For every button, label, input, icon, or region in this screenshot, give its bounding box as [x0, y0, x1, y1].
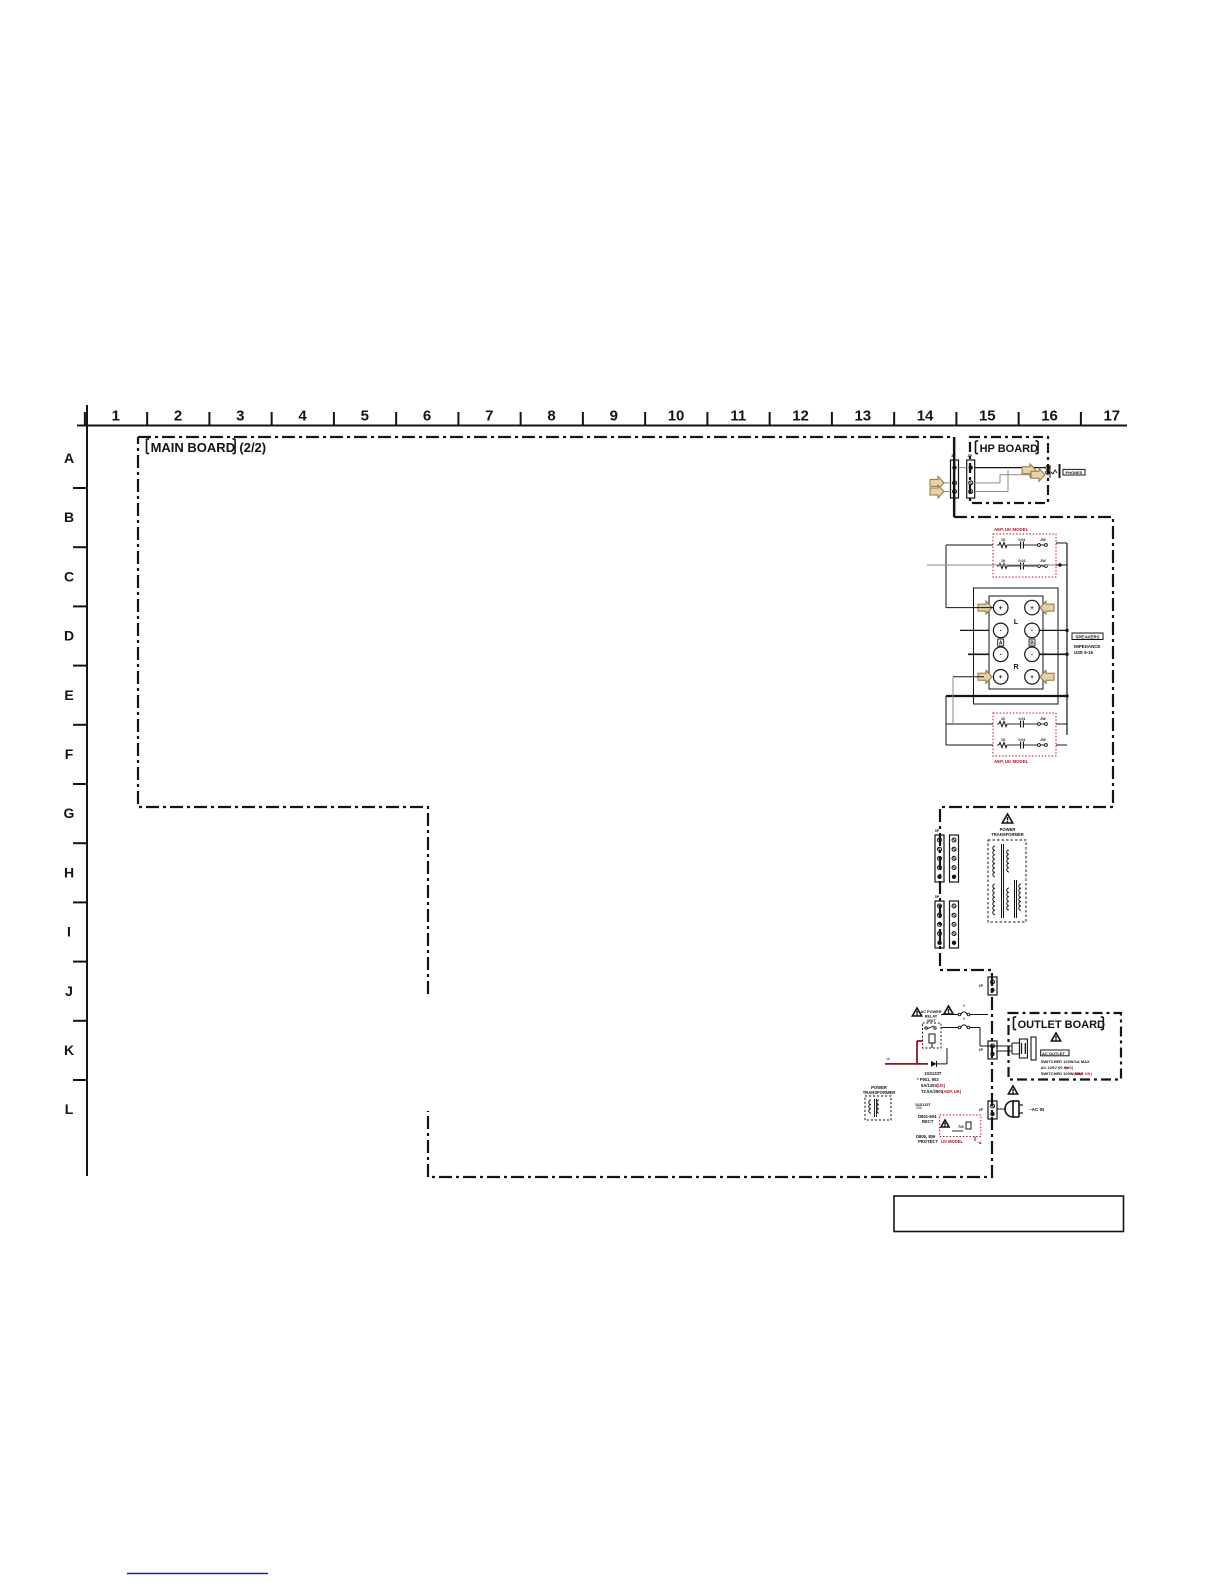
svg-text:AEP, UK MODEL: AEP, UK MODEL [994, 527, 1029, 532]
svg-text:0.01: 0.01 [1019, 738, 1026, 742]
svg-text:+: + [999, 605, 1003, 612]
svg-text:5P: 5P [935, 829, 940, 833]
svg-text:US MODEL: US MODEL [941, 1139, 964, 1144]
svg-text:6: 6 [423, 408, 431, 425]
svg-text:3P: 3P [951, 454, 956, 458]
svg-text:7/8: 7/8 [958, 1124, 964, 1129]
svg-text:G: G [64, 805, 75, 821]
svg-text:+: + [1030, 674, 1034, 681]
svg-text:AC OUTLET: AC OUTLET [1042, 1051, 1065, 1056]
svg-text:F: F [65, 746, 74, 762]
svg-text:SPEAKERS: SPEAKERS [1075, 634, 1099, 639]
svg-text:8: 8 [547, 408, 555, 425]
svg-text:0.01: 0.01 [1019, 559, 1026, 563]
svg-text:10: 10 [1001, 559, 1005, 563]
svg-text:JW: JW [1040, 538, 1046, 542]
svg-text:R: R [1013, 664, 1018, 671]
svg-text:TRANSFORMER: TRANSFORMER [991, 832, 1024, 837]
svg-text:(US): (US) [937, 1083, 946, 1088]
svg-text:5: 5 [361, 408, 369, 425]
svg-text:B: B [1030, 641, 1034, 647]
svg-text:3: 3 [236, 408, 244, 425]
svg-text:-: - [1000, 652, 1002, 659]
svg-text:I: I [67, 924, 71, 940]
svg-text:~A: ~A [977, 1141, 982, 1145]
svg-text:AEP, UK MODEL: AEP, UK MODEL [994, 759, 1029, 764]
svg-text:PROTECT: PROTECT [918, 1139, 938, 1144]
svg-text:1: 1 [112, 408, 120, 425]
svg-text:15: 15 [979, 408, 996, 425]
svg-text:A: A [64, 450, 74, 466]
svg-text:H: H [64, 864, 74, 880]
svg-text:+: + [999, 674, 1003, 681]
svg-text:PHONES: PHONES [1066, 470, 1083, 475]
svg-text:(2/2): (2/2) [239, 440, 266, 455]
svg-text:(AEP, UK): (AEP, UK) [1074, 1071, 1093, 1076]
svg-text:OUTLET BOARD: OUTLET BOARD [1018, 1019, 1105, 1031]
svg-text:17: 17 [1103, 408, 1120, 425]
svg-text:2P: 2P [979, 1108, 984, 1112]
svg-text:10: 10 [1001, 717, 1005, 721]
svg-text:AC POWER: AC POWER [921, 1010, 942, 1014]
svg-text:SWITCHED 120W/1A MAX: SWITCHED 120W/1A MAX [1041, 1059, 1090, 1064]
svg-text:5P: 5P [935, 895, 940, 899]
svg-text:9: 9 [610, 408, 618, 425]
svg-text:1SS133T: 1SS133T [915, 1103, 932, 1107]
svg-text:5A/125V: 5A/125V [921, 1083, 938, 1088]
svg-text:L: L [65, 1101, 74, 1117]
svg-text:1k: 1k [886, 1057, 890, 1061]
svg-text:UNIT: UNIT [927, 1019, 937, 1023]
svg-text:16: 16 [1041, 408, 1058, 425]
svg-text:10: 10 [1001, 538, 1005, 542]
svg-text:-: - [1000, 628, 1002, 635]
svg-text:2P: 2P [979, 1048, 984, 1052]
svg-text:13: 13 [854, 408, 871, 425]
svg-text:10: 10 [1001, 738, 1005, 742]
svg-text:(US): (US) [1065, 1065, 1074, 1070]
svg-text:4: 4 [298, 408, 307, 425]
svg-text:RELAY: RELAY [925, 1015, 938, 1019]
svg-text:14: 14 [917, 408, 934, 425]
svg-text:HP BOARD: HP BOARD [980, 443, 1039, 455]
svg-text:12: 12 [792, 408, 809, 425]
svg-text:TRANSFORMER: TRANSFORMER [863, 1090, 896, 1095]
svg-text:7: 7 [485, 408, 493, 425]
svg-text:JW: JW [1040, 717, 1046, 721]
svg-text:RECT: RECT [922, 1119, 934, 1124]
svg-text:+: + [1030, 605, 1034, 612]
svg-text:J: J [65, 983, 73, 999]
svg-text:D: D [64, 628, 74, 644]
svg-text:-: - [1031, 628, 1033, 635]
svg-text:0.01: 0.01 [1019, 717, 1026, 721]
svg-text:USE 8-16: USE 8-16 [1074, 650, 1094, 655]
svg-text:IMPEDANCE: IMPEDANCE [1074, 644, 1100, 649]
svg-text:0.01: 0.01 [1019, 538, 1026, 542]
svg-text:3P: 3P [967, 454, 972, 458]
svg-text:2: 2 [174, 408, 182, 425]
svg-text:-: - [1031, 652, 1033, 659]
svg-text:A: A [999, 641, 1003, 647]
svg-text:11: 11 [730, 408, 746, 425]
svg-text:1SS133T: 1SS133T [924, 1071, 942, 1076]
svg-text:JW: JW [1040, 738, 1046, 742]
svg-text:*: * [963, 1005, 965, 1011]
svg-text:K: K [64, 1042, 74, 1058]
svg-text:2P: 2P [979, 984, 984, 988]
svg-text:10: 10 [668, 408, 685, 425]
svg-text:(AEP, UK): (AEP, UK) [942, 1089, 962, 1094]
svg-text:JW: JW [1040, 559, 1046, 563]
svg-text:L: L [1014, 619, 1019, 626]
svg-text:B: B [64, 509, 74, 525]
svg-text:* F901, 902: * F901, 902 [917, 1077, 939, 1082]
svg-text:MAIN BOARD: MAIN BOARD [151, 440, 236, 455]
svg-text:C: C [64, 568, 74, 584]
svg-text:T2.5A/250V: T2.5A/250V [921, 1089, 944, 1094]
svg-text:*: * [963, 1018, 965, 1024]
svg-text:~AC IN: ~AC IN [1029, 1107, 1045, 1112]
svg-text:E: E [64, 687, 73, 703]
